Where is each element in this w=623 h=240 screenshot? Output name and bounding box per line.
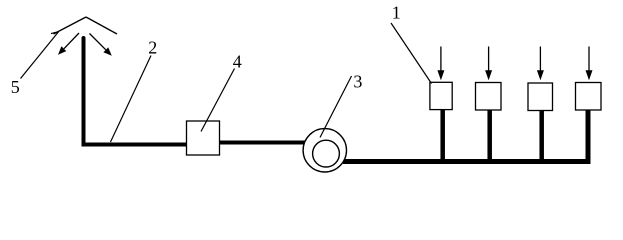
plume arrow left	[58, 33, 79, 55]
intake arrow 4	[586, 47, 593, 81]
svg-text:5: 5	[11, 77, 20, 97]
duct segment box4 to fan	[220, 141, 306, 145]
main duct right (fan to hoods)	[343, 109, 588, 162]
leader line 1	[391, 23, 432, 84]
dust collector box 4	[187, 121, 220, 155]
roof left line	[54, 17, 87, 34]
hood box 1	[430, 82, 452, 109]
plume arrow right	[90, 34, 112, 56]
hood box 4	[576, 83, 602, 111]
intake arrow 1	[437, 47, 444, 81]
branch stub 2	[487, 110, 492, 162]
hood box 2	[476, 83, 502, 111]
roof right line	[86, 17, 117, 34]
svg-text:3: 3	[353, 71, 362, 91]
intake arrow 2	[485, 47, 492, 81]
leader line 5	[21, 32, 59, 79]
leader line 3	[320, 76, 352, 138]
leader line 2	[111, 56, 152, 143]
svg-text:1: 1	[392, 2, 401, 22]
hood box 3	[528, 83, 553, 111]
fan inner circle	[313, 140, 340, 167]
branch stub 3	[539, 110, 544, 162]
leader line 4	[201, 69, 235, 132]
svg-text:2: 2	[148, 37, 157, 57]
stack / exhaust pipe	[84, 38, 188, 145]
fan outer circle	[303, 129, 346, 172]
branch stub 1	[440, 110, 445, 162]
intake arrow 3	[537, 47, 544, 81]
